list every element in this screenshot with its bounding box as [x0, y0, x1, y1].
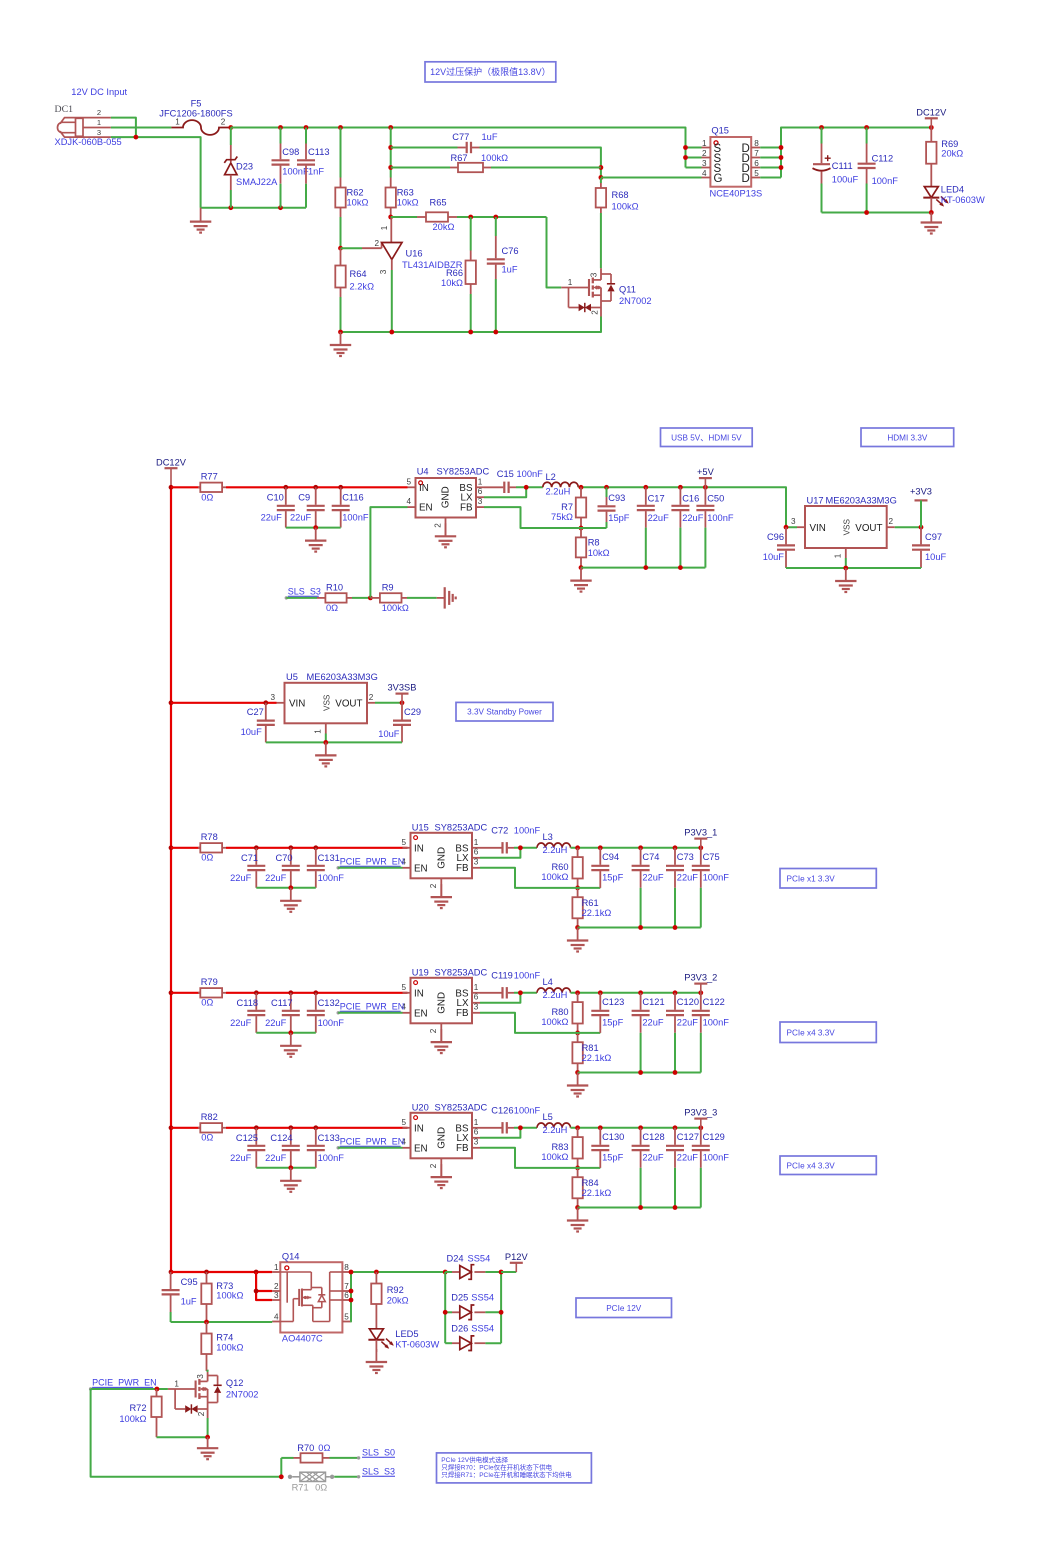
svg-text:2: 2	[274, 1282, 279, 1291]
capacitor C27 10uF	[241, 703, 275, 743]
svg-text:2: 2	[97, 108, 101, 117]
svg-text:SY8253ADC: SY8253ADC	[437, 467, 490, 477]
svg-text:Q12: Q12	[226, 1378, 244, 1388]
wire	[111, 118, 136, 138]
junction	[779, 155, 784, 160]
svg-text:3: 3	[702, 159, 707, 168]
regulator U5 ME6203A33M3G	[270, 672, 377, 742]
junction	[579, 485, 584, 490]
ground	[437, 597, 445, 599]
capacitor C125 22uF	[230, 1128, 265, 1168]
capacitor C112 100nF	[858, 128, 899, 213]
svg-text:3: 3	[474, 1003, 479, 1012]
inductor L5 2.2uH	[537, 1112, 571, 1135]
svg-text:100nF: 100nF	[703, 1018, 730, 1028]
svg-text:1nF: 1nF	[308, 167, 324, 177]
capacitor C120 22uF	[666, 993, 699, 1073]
svg-text:LED4: LED4	[941, 185, 964, 195]
capacitor C118 22uF	[230, 993, 265, 1033]
wire	[111, 127, 171, 129]
junction	[313, 990, 318, 995]
svg-text:100kΩ: 100kΩ	[541, 1017, 568, 1027]
svg-text:PCIE_PWR_EN: PCIE_PWR_EN	[340, 1001, 405, 1011]
svg-text:GND: GND	[436, 992, 447, 1014]
capacitor C126 100nF	[480, 1106, 540, 1134]
junction	[864, 125, 869, 130]
junction	[698, 845, 703, 850]
wire R72 Q12 source ground	[157, 1436, 208, 1438]
junction	[929, 210, 934, 215]
svg-text:U19: U19	[412, 968, 429, 978]
svg-text:2: 2	[429, 1028, 438, 1033]
svg-text:C124: C124	[270, 1133, 292, 1143]
svg-text:DC1: DC1	[55, 104, 74, 115]
svg-text:22uF: 22uF	[230, 1153, 252, 1163]
junction	[678, 485, 683, 490]
svg-text:L3: L3	[543, 832, 553, 842]
junction	[575, 1070, 580, 1075]
svg-text:22uF: 22uF	[265, 1153, 287, 1163]
svg-text:1: 1	[97, 118, 101, 127]
svg-text:C27: C27	[247, 707, 264, 717]
wire output rail	[571, 1127, 701, 1129]
svg-text:SLS_S3: SLS_S3	[288, 587, 321, 597]
svg-text:3: 3	[791, 517, 796, 526]
junction	[575, 1205, 580, 1210]
svg-text:22.1kΩ: 22.1kΩ	[582, 1053, 612, 1063]
wire U5 ground rail	[266, 741, 402, 743]
net PCIE_PWR_EN label	[89, 1378, 157, 1391]
junction	[169, 700, 174, 705]
svg-text:R70: R70	[297, 1443, 314, 1453]
svg-text:22uF: 22uF	[290, 513, 312, 523]
junction	[263, 700, 268, 705]
ground	[290, 888, 292, 901]
capacitor C127 22uF	[666, 1128, 699, 1208]
svg-text:100nF: 100nF	[872, 176, 899, 186]
capacitor C94 15pF	[591, 848, 623, 888]
svg-text:100kΩ: 100kΩ	[481, 153, 508, 163]
svg-text:U17: U17	[807, 495, 824, 505]
svg-text:100kΩ: 100kΩ	[541, 872, 568, 882]
wire Q14 drain join	[349, 1272, 352, 1322]
junction	[169, 1270, 174, 1275]
resistor R66 10k	[441, 217, 476, 332]
wire	[485, 1311, 501, 1313]
svg-text:15pF: 15pF	[608, 513, 630, 523]
ground	[577, 1208, 579, 1221]
svg-text:5: 5	[754, 169, 759, 178]
svg-text:6: 6	[474, 993, 479, 1002]
junction	[313, 1125, 318, 1130]
capacitor C122 100nF	[692, 993, 729, 1073]
junction	[575, 886, 580, 891]
junction	[349, 1298, 354, 1303]
junction	[698, 1125, 703, 1130]
svg-text:12V DC Input: 12V DC Input	[71, 87, 127, 97]
svg-text:15pF: 15pF	[602, 873, 624, 883]
resistor R77 0R	[171, 472, 408, 503]
junction	[864, 210, 869, 215]
wire PCIE_PWR_EN to gate	[91, 1388, 168, 1390]
svg-text:100kΩ: 100kΩ	[119, 1414, 146, 1424]
svg-text:SMAJ22A: SMAJ22A	[236, 177, 278, 187]
resistor R80 100k	[541, 993, 582, 1033]
svg-text:只焊接R70：PCIe仅在开机状态下供电: 只焊接R70：PCIe仅在开机状态下供电	[441, 1462, 552, 1471]
svg-text:2: 2	[197, 1411, 206, 1416]
svg-text:USB 5V、HDMI 5V: USB 5V、HDMI 5V	[671, 433, 742, 442]
capacitor C133 100nF	[307, 1128, 344, 1168]
wire Q15 drain vertical	[781, 128, 931, 178]
svg-text:1uF: 1uF	[482, 132, 498, 142]
junction	[283, 485, 288, 490]
svg-text:VSS: VSS	[322, 694, 331, 711]
svg-text:SY8253ADC: SY8253ADC	[435, 1103, 488, 1113]
ground	[375, 1349, 377, 1362]
wire	[514, 1127, 537, 1129]
inductor L4 2.2uH	[537, 977, 571, 1000]
wire	[352, 597, 370, 599]
junction	[349, 1270, 354, 1275]
svg-text:C126: C126	[491, 1106, 513, 1116]
net PCIE_PWR_EN label	[337, 1001, 405, 1014]
svg-text:U16: U16	[406, 249, 423, 259]
svg-text:PCIe 12V: PCIe 12V	[606, 1304, 642, 1313]
junction	[493, 215, 498, 220]
capacitor C123 15pF	[591, 993, 624, 1033]
resistor R10 0R	[286, 583, 370, 613]
wire EN	[338, 1147, 402, 1149]
svg-text:22.1kΩ: 22.1kΩ	[582, 908, 612, 918]
svg-text:6: 6	[474, 1128, 479, 1137]
svg-text:C98: C98	[282, 147, 299, 157]
wire R71 to SLS_S3	[334, 1476, 358, 1478]
svg-text:6: 6	[754, 159, 759, 168]
capacitor C132 100nF	[307, 993, 344, 1033]
capacitor C129 100nF	[692, 1128, 729, 1208]
svg-text:C133: C133	[318, 1133, 340, 1143]
svg-text:EN: EN	[414, 1008, 428, 1019]
svg-text:C113: C113	[308, 147, 330, 157]
wire main 12V input	[231, 128, 686, 168]
svg-text:EN: EN	[419, 503, 433, 514]
junction	[288, 1165, 293, 1170]
svg-text:3: 3	[474, 858, 479, 867]
svg-text:2: 2	[221, 117, 226, 126]
svg-text:15pF: 15pF	[602, 1153, 624, 1163]
wire	[391, 216, 417, 218]
wire output ground rail	[578, 927, 701, 929]
resistor R82 0R	[171, 1112, 408, 1143]
svg-text:1: 1	[175, 117, 180, 126]
annotation box 3.3V standby	[456, 702, 553, 721]
svg-text:1: 1	[702, 139, 707, 148]
junction	[643, 485, 648, 490]
diode D26 SS54	[445, 1324, 501, 1351]
svg-text:22uF: 22uF	[265, 873, 287, 883]
junction	[288, 845, 293, 850]
svg-text:1: 1	[474, 983, 479, 992]
svg-text:22uF: 22uF	[230, 873, 252, 883]
capacitor C124 22uF	[265, 1128, 300, 1168]
svg-text:100nF: 100nF	[703, 873, 730, 883]
junction	[518, 990, 523, 995]
svg-text:L4: L4	[543, 977, 553, 987]
svg-text:+5V: +5V	[697, 467, 715, 477]
node DC12V rail flag	[156, 458, 187, 488]
svg-text:3: 3	[590, 272, 599, 277]
resistor R81 22.1k	[572, 1033, 611, 1073]
svg-text:100kΩ: 100kΩ	[382, 603, 409, 613]
svg-text:R65: R65	[430, 197, 447, 207]
svg-text:10kΩ: 10kΩ	[347, 197, 369, 207]
svg-text:10kΩ: 10kΩ	[441, 278, 463, 288]
capacitor C71 22uF	[230, 848, 265, 888]
svg-text:R78: R78	[201, 832, 218, 842]
capacitor C98 100nF	[272, 128, 309, 208]
svg-text:C131: C131	[318, 853, 340, 863]
wire	[256, 1290, 272, 1292]
junction	[288, 885, 293, 890]
svg-text:EN: EN	[414, 1143, 428, 1154]
svg-text:C50: C50	[707, 494, 724, 504]
svg-text:C132: C132	[318, 998, 340, 1008]
wire	[330, 1457, 359, 1459]
svg-text:100nF: 100nF	[318, 1018, 345, 1028]
wire	[480, 148, 601, 179]
resistor R62 10k	[335, 128, 368, 249]
junction	[673, 1125, 678, 1130]
svg-text:15pF: 15pF	[602, 1018, 624, 1028]
wire	[514, 847, 537, 849]
svg-text:KT-0603W: KT-0603W	[395, 1339, 439, 1349]
svg-text:22uF: 22uF	[265, 1018, 287, 1028]
svg-text:R66: R66	[446, 268, 463, 278]
resistor R68 100k	[596, 178, 639, 268]
junction	[388, 125, 393, 130]
svg-text:1: 1	[478, 477, 483, 486]
svg-text:C73: C73	[677, 852, 694, 862]
junction	[388, 215, 393, 220]
junction	[919, 525, 924, 530]
junction	[683, 155, 688, 160]
op-amp U16 TL431AIDBZR	[341, 217, 463, 332]
svg-text:2N7002: 2N7002	[619, 296, 652, 306]
wire diode cathode bus	[500, 1272, 502, 1343]
svg-text:G: G	[714, 173, 723, 185]
wire LX bootstrap	[480, 1128, 520, 1138]
junction	[313, 525, 318, 530]
svg-text:100nF: 100nF	[318, 873, 345, 883]
svg-text:20kΩ: 20kΩ	[941, 148, 963, 158]
capacitor C15 100nF	[484, 469, 543, 493]
svg-text:5: 5	[401, 838, 406, 847]
wire 5V ground rail	[581, 567, 705, 569]
junction	[338, 246, 343, 251]
junction	[575, 990, 580, 995]
svg-text:2.2uH: 2.2uH	[543, 845, 568, 855]
svg-text:EN: EN	[414, 863, 428, 874]
svg-text:10uF: 10uF	[763, 552, 785, 562]
svg-text:22uF: 22uF	[677, 1018, 699, 1028]
svg-text:C9: C9	[298, 493, 310, 503]
node +3V3 flag	[910, 487, 932, 528]
capacitor C119 100nF	[480, 971, 540, 999]
svg-text:100nF: 100nF	[703, 1153, 730, 1163]
svg-text:DC12V: DC12V	[156, 458, 187, 468]
capacitor C74 22uF	[632, 848, 664, 928]
wire EN	[338, 867, 402, 869]
svg-text:2: 2	[591, 310, 600, 315]
svg-text:1: 1	[274, 1263, 279, 1272]
svg-text:D24: D24	[447, 1253, 464, 1263]
svg-text:U15: U15	[412, 823, 429, 833]
svg-text:5: 5	[344, 1313, 349, 1322]
junction	[254, 990, 259, 995]
capacitor C72 100nF	[480, 826, 540, 854]
wire to P12V	[501, 1271, 516, 1273]
svg-text:IN: IN	[419, 483, 429, 494]
wire Q15 sources to 12V	[760, 147, 781, 149]
svg-text:R73: R73	[216, 1281, 233, 1291]
junction	[638, 990, 643, 995]
wire	[341, 247, 363, 249]
svg-text:1: 1	[474, 1118, 479, 1127]
wire input caps ground	[256, 1032, 316, 1034]
junction	[599, 165, 604, 170]
junction	[643, 565, 648, 570]
ground	[930, 213, 932, 223]
wire	[391, 167, 450, 169]
svg-text:SLS_S3: SLS_S3	[362, 1467, 395, 1477]
svg-text:2: 2	[889, 517, 894, 526]
svg-text:SLS_S0: SLS_S0	[362, 1448, 395, 1458]
junction	[575, 1125, 580, 1130]
svg-text:0Ω: 0Ω	[201, 998, 213, 1008]
svg-text:8: 8	[344, 1263, 349, 1272]
junction	[638, 925, 643, 930]
capacitor C113 1nF	[297, 128, 330, 208]
svg-text:2: 2	[429, 1163, 438, 1168]
capacitor C121 22uF	[632, 993, 665, 1073]
wire LX to bootstrap	[484, 487, 526, 497]
junction	[524, 485, 529, 490]
junction	[204, 1270, 209, 1275]
svg-text:0Ω: 0Ω	[201, 493, 213, 503]
svg-text:3: 3	[270, 693, 275, 702]
wire	[485, 1271, 501, 1273]
svg-text:2: 2	[433, 523, 442, 528]
resistor R64 2.2k	[335, 248, 374, 332]
svg-text:AO4407C: AO4407C	[282, 1334, 323, 1344]
capacitor C70 22uF	[265, 848, 300, 888]
resistor R67 100k	[391, 153, 601, 172]
capacitor C76 1uF	[487, 217, 519, 332]
annotation box USB HDMI 5V	[661, 428, 753, 447]
svg-text:PCIE_PWR_EN: PCIE_PWR_EN	[92, 1378, 157, 1388]
svg-text:GND: GND	[441, 486, 452, 508]
svg-text:2.2uH: 2.2uH	[546, 486, 571, 496]
svg-text:1uF: 1uF	[502, 265, 518, 275]
svg-text:R82: R82	[201, 1112, 218, 1122]
svg-text:3: 3	[478, 497, 483, 506]
svg-text:DC12V: DC12V	[916, 107, 947, 117]
junction	[579, 565, 584, 570]
svg-text:C71: C71	[241, 853, 258, 863]
wire C95 R73 ground row	[171, 1321, 273, 1323]
junction	[673, 925, 678, 930]
junction	[349, 1289, 354, 1294]
ground	[325, 742, 327, 755]
junction	[388, 165, 393, 170]
svg-text:100nF: 100nF	[514, 971, 541, 981]
svg-text:R68: R68	[612, 190, 629, 200]
svg-text:5: 5	[406, 477, 411, 486]
svg-text:NCE40P13S: NCE40P13S	[710, 188, 763, 198]
diode D24 SS54	[445, 1253, 501, 1279]
svg-text:VIN: VIN	[289, 698, 305, 709]
svg-text:R8: R8	[588, 537, 600, 547]
wire FB divider	[480, 1013, 600, 1033]
transistor Q15 NCE40P13S	[702, 125, 763, 198]
svg-text:R83: R83	[551, 1142, 568, 1152]
svg-text:1: 1	[833, 553, 842, 558]
svg-text:12V过压保护（极限值13.8V）: 12V过压保护（极限值13.8V）	[430, 66, 551, 77]
svg-text:100uF: 100uF	[832, 175, 859, 185]
svg-text:C130: C130	[602, 1132, 624, 1142]
svg-text:L2: L2	[546, 472, 556, 482]
svg-text:3: 3	[196, 1374, 205, 1379]
svg-text:+3V3: +3V3	[910, 487, 932, 497]
svg-text:3: 3	[274, 1291, 279, 1300]
svg-text:5: 5	[401, 983, 406, 992]
svg-text:3: 3	[474, 1138, 479, 1147]
capacitor C93 15pF	[598, 487, 630, 528]
ground rail DC input	[201, 207, 306, 209]
transistor Q12 2N7002	[168, 1370, 259, 1418]
ground	[207, 1437, 209, 1448]
junction	[169, 1125, 174, 1130]
junction	[819, 125, 824, 130]
wire	[445, 1342, 452, 1344]
svg-text:C128: C128	[642, 1132, 664, 1142]
svg-text:P12V: P12V	[505, 1252, 529, 1262]
junction	[304, 125, 309, 130]
junction	[518, 1125, 523, 1130]
wire	[485, 1342, 501, 1344]
resistor R72 100k	[119, 1389, 161, 1437]
wire U5 vout	[375, 702, 402, 704]
junction	[338, 125, 343, 130]
inductor L3 2.2uH	[537, 832, 571, 855]
ground	[440, 884, 442, 897]
resistor R70 0R	[281, 1443, 358, 1463]
svg-text:P3V3_2: P3V3_2	[684, 973, 717, 983]
svg-text:U20: U20	[412, 1103, 429, 1113]
junction	[288, 1030, 293, 1035]
svg-text:R74: R74	[216, 1333, 233, 1343]
wire	[391, 147, 458, 149]
svg-text:22uF: 22uF	[682, 513, 704, 523]
wire rail to Q14	[171, 1271, 272, 1273]
capacitor C97 10uF	[912, 527, 947, 568]
svg-text:PCIe x1 3.3V: PCIe x1 3.3V	[787, 874, 836, 883]
svg-text:0Ω: 0Ω	[315, 1482, 327, 1492]
wire U17 ground rail	[786, 567, 921, 569]
junction	[638, 1070, 643, 1075]
junction	[575, 845, 580, 850]
ground	[315, 528, 317, 541]
